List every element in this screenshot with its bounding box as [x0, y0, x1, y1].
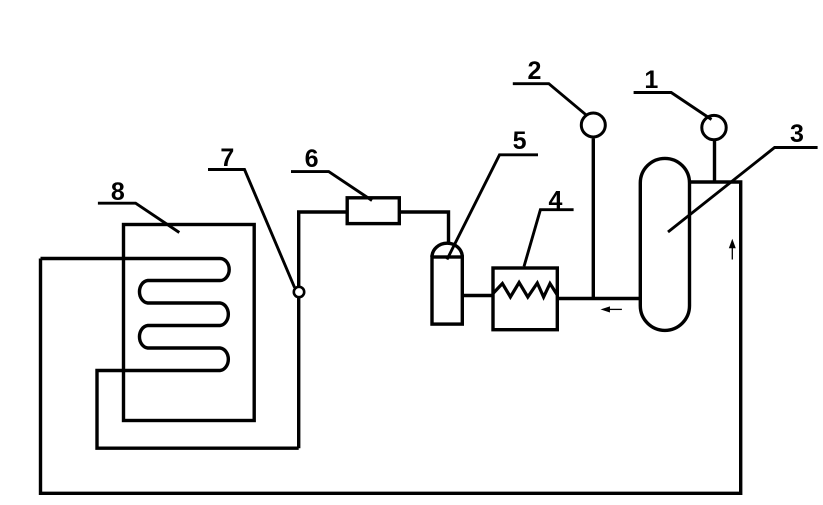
receiver 5 body — [432, 257, 462, 324]
leader line 8 — [98, 203, 179, 232]
receiver 5 dome — [432, 243, 462, 257]
svg-text:8: 8 — [111, 178, 125, 206]
svg-text:5: 5 — [513, 127, 527, 155]
wire valve riser lower — [297, 298, 300, 448]
leader line 5 — [447, 155, 538, 260]
wire coil supply run + evaporator coil + return pipe to valve — [41, 259, 299, 449]
svg-text:1: 1 — [644, 66, 658, 94]
gauge 1 circle — [702, 115, 726, 139]
wire heater 4 to tank 3 — [557, 297, 640, 300]
svg-text:4: 4 — [549, 187, 563, 215]
svg-text:6: 6 — [305, 145, 319, 173]
tank 3 capsule — [640, 158, 689, 330]
wire rect6 to receiver 5 — [399, 212, 448, 244]
wire receiver to heater 4 — [462, 294, 493, 297]
flow arrow up on right pipe — [729, 240, 735, 260]
leader line 7 — [208, 170, 295, 288]
heater 4 zigzag element — [493, 283, 557, 298]
leader line 1 — [634, 93, 712, 120]
leader line 3 — [668, 148, 818, 233]
leader line 2 — [513, 84, 586, 115]
wire valve riser upper + pipe to rect 6 — [299, 212, 348, 286]
evaporator box 8 — [124, 225, 255, 421]
valve 7 circle — [294, 287, 304, 297]
gauge 2 circle — [581, 113, 605, 137]
svg-text:3: 3 — [790, 120, 804, 148]
filter rect 6 — [347, 198, 399, 224]
flow arrow left on pipe — [602, 307, 622, 312]
svg-text:2: 2 — [527, 57, 541, 85]
gauge 1 stem — [713, 141, 716, 182]
heater box 4 — [493, 268, 557, 330]
leader line 4 — [524, 210, 574, 267]
wire outer loop — [41, 182, 741, 493]
svg-text:7: 7 — [220, 144, 234, 172]
leader line 6 — [291, 172, 372, 201]
gauge 2 stem — [592, 139, 595, 299]
